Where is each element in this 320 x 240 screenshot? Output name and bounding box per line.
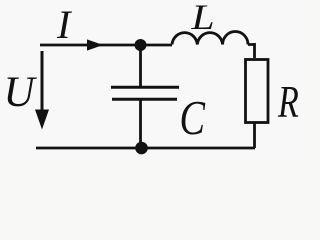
wire: bottom horizontal: [36, 147, 255, 150]
inductor L (3 humps): [172, 32, 248, 45]
svg-text:C: C: [180, 91, 206, 146]
capacitor C: bottom plate: [112, 98, 177, 101]
wire: capacitor top lead: [139, 45, 142, 87]
node: top junction (capacitor tap): [135, 39, 147, 51]
svg-text:U: U: [4, 69, 38, 116]
wire: resistor bottom lead: [253, 123, 256, 148]
svg-text:R: R: [277, 76, 299, 127]
wire: capacitor bottom lead: [139, 100, 142, 148]
voltage arrow U (shaft): [41, 51, 44, 111]
capacitor C: top plate: [111, 86, 179, 89]
voltage arrow U (head): [35, 110, 49, 130]
resistor R (box): [246, 60, 269, 123]
svg-text:L: L: [190, 0, 214, 37]
current arrowhead I (on top wire): [87, 39, 103, 50]
node: bottom junction: [135, 142, 148, 155]
wire: inductor to resistor top: [248, 43, 255, 58]
wire: top horizontal (left terminal to inductor): [40, 44, 172, 47]
svg-text:I: I: [56, 2, 73, 47]
